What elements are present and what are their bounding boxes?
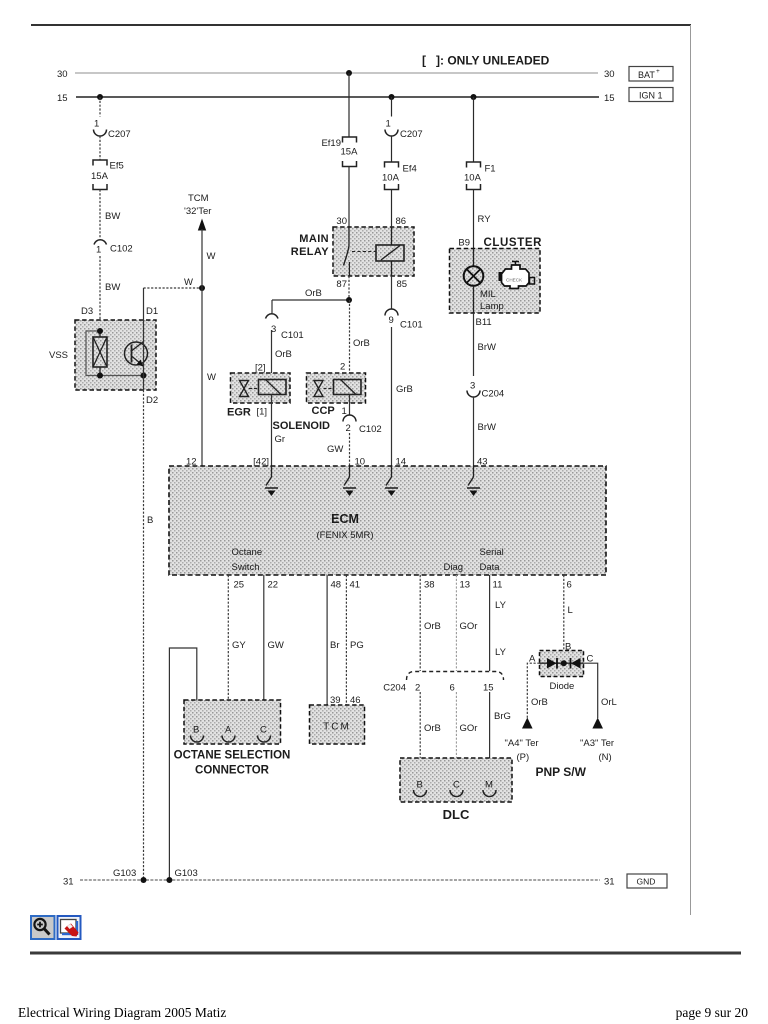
connector C102 pin 1: [94, 240, 133, 256]
label OCTANE SELECTION CONNECTOR: [174, 750, 291, 777]
wire C101 to ECM pin 14, GrB: [392, 327, 413, 466]
pin label 30: [336, 216, 347, 227]
node VSS sensor bottom: [97, 373, 103, 379]
svg-text:13: 13: [460, 580, 471, 591]
svg-text:GOr: GOr: [460, 723, 478, 734]
svg-text:10A: 10A: [464, 173, 482, 184]
relay coil: [376, 227, 404, 276]
svg-text:OrB: OrB: [305, 288, 322, 299]
svg-text:page 9 sur 20: page 9 sur 20: [676, 1005, 749, 1020]
wire C102 to VSS D3, BW: [100, 256, 120, 320]
wire ECM 41 to TCM 46, PG: [346, 575, 363, 706]
note: only unleaded: [422, 54, 550, 68]
fuse Ef19 15A: [321, 137, 358, 167]
node G103 B wire: [141, 877, 147, 883]
pin label 38: [424, 580, 435, 591]
svg-text:Br: Br: [330, 640, 340, 651]
connector C204 pin 3: [467, 381, 504, 400]
svg-text:31: 31: [63, 877, 74, 888]
svg-text:BW: BW: [105, 282, 120, 293]
svg-text:(N): (N): [599, 752, 612, 763]
TCM box: [310, 705, 365, 744]
svg-text:OCTANE SELECTION: OCTANE SELECTION: [174, 750, 291, 762]
svg-text:GY: GY: [232, 640, 246, 651]
wire ECM 25 to octane A, GY: [228, 575, 246, 720]
svg-text:1: 1: [386, 119, 391, 130]
svg-text:G103: G103: [113, 868, 136, 879]
octane connector box: [184, 700, 281, 744]
svg-text:[1]: [1]: [257, 407, 268, 418]
wire W down to ECM pin 12: [202, 288, 216, 466]
node on bus 30 at main relay column: [346, 70, 352, 76]
connector C101 pin 9: [385, 309, 423, 331]
node W junction: [199, 285, 205, 291]
svg-text:C101: C101: [400, 320, 423, 331]
wire OrB horizontal to EGR branch: [272, 288, 349, 300]
pin label [42]: [253, 457, 269, 468]
terminal box BAT+: [629, 67, 673, 82]
svg-text:OrB: OrB: [353, 338, 370, 349]
svg-text:RY: RY: [478, 214, 492, 225]
fuse Ef5 15A: [91, 160, 124, 190]
svg-text:+: +: [656, 68, 660, 75]
pin label [2]: [255, 363, 266, 374]
CCP coil: [334, 380, 362, 395]
svg-text:1: 1: [96, 245, 101, 256]
VSS internal loop wire: [86, 331, 144, 376]
node G103 octane wire: [166, 877, 172, 883]
label Diode: [550, 681, 575, 692]
wire C204-6 to DLC C, GOr: [456, 692, 477, 779]
svg-text:Electrical Wiring Diagram 2005: Electrical Wiring Diagram 2005 Matiz: [18, 1005, 226, 1020]
svg-text:B: B: [193, 725, 199, 736]
wire EGR to ECM [42], Gr: [272, 395, 286, 467]
bus 31 label left: [63, 877, 74, 888]
octane pin C: [258, 725, 271, 743]
svg-text:ECM: ECM: [331, 512, 359, 526]
svg-text:3: 3: [470, 381, 475, 392]
DLC pin C: [450, 780, 463, 797]
fuse F1 10A: [464, 162, 496, 190]
svg-text:10A: 10A: [382, 173, 400, 184]
footer rule: [30, 952, 741, 955]
svg-text:DLC: DLC: [443, 807, 470, 822]
octane pin B: [191, 725, 204, 743]
wire cluster to C204, BrW: [474, 313, 497, 376]
svg-text:BrG: BrG: [494, 711, 511, 722]
svg-text:86: 86: [396, 216, 407, 227]
ECM ground for pin 43: [467, 466, 480, 496]
svg-text:1: 1: [94, 119, 99, 130]
svg-text:30: 30: [336, 216, 347, 227]
ECM ground for pin 14: [385, 466, 398, 496]
wire Ef4 to relay pin 86: [391, 190, 393, 228]
svg-text:EGR: EGR: [227, 407, 251, 419]
svg-text:BrW: BrW: [478, 422, 497, 433]
reference arrow to TCM 32 terminal: [184, 193, 216, 288]
svg-text:OrB: OrB: [275, 349, 292, 360]
svg-text:[2]: [2]: [255, 363, 266, 374]
pin label D3: [81, 306, 93, 317]
solenoid CCP box: [307, 373, 366, 403]
svg-text:GOr: GOr: [460, 621, 478, 632]
footer page number: [676, 1005, 749, 1020]
svg-text:MIL: MIL: [480, 289, 496, 300]
relay box MAIN RELAY: [333, 227, 414, 276]
node bus15 / Ef5 column: [97, 94, 103, 100]
svg-text:Octane: Octane: [232, 547, 263, 558]
pin label C: [587, 654, 594, 665]
wire diode A to A4 terminal, OrB: [527, 663, 548, 718]
wire diode C to A3 terminal, OrL: [584, 663, 617, 718]
svg-text:(FENIX 5MR): (FENIX 5MR): [317, 530, 374, 541]
wire relay 85 to C101 pin 9: [391, 276, 393, 309]
svg-text:OrB: OrB: [531, 697, 548, 708]
svg-text:Ef5: Ef5: [110, 161, 124, 172]
svg-text:11: 11: [493, 580, 503, 591]
pin label 2 (CCP): [340, 362, 345, 373]
svg-text:B11: B11: [476, 317, 492, 328]
relay name MAIN RELAY: [291, 233, 330, 258]
svg-text:Data: Data: [480, 562, 501, 573]
svg-text:15: 15: [57, 93, 68, 104]
CCP valve symbol: [314, 381, 332, 397]
pin label 10: [355, 457, 366, 468]
wire bus 15: [76, 96, 599, 98]
svg-text:F1: F1: [485, 164, 496, 175]
svg-text:CLUSTER: CLUSTER: [484, 237, 543, 249]
label DLC: [443, 807, 470, 822]
svg-text:30: 30: [57, 69, 68, 80]
svg-text:C101: C101: [281, 330, 304, 341]
diode pair: [540, 658, 584, 669]
relay switch contact: [344, 227, 377, 276]
connector C101 pin 3: [266, 314, 304, 341]
svg-text:9: 9: [389, 315, 394, 326]
wire EGR branch down to C101: [271, 300, 273, 313]
svg-text:OrL: OrL: [601, 697, 617, 708]
wire ECM 11 to DLC M, LY: [490, 575, 507, 671]
wire Ef5 to C102, BW: [100, 190, 120, 238]
solenoid EGR box: [231, 373, 291, 403]
svg-text:85: 85: [397, 279, 408, 290]
svg-text:GW: GW: [327, 444, 343, 455]
svg-text:B: B: [417, 780, 423, 791]
svg-text:G103: G103: [175, 868, 198, 879]
svg-text:Serial: Serial: [480, 547, 504, 558]
VSS sensor element: [93, 331, 107, 376]
node OrB junction: [346, 297, 352, 303]
svg-text:15A: 15A: [341, 147, 359, 158]
terminal box IGN 1: [629, 88, 673, 102]
wire C204 to ECM pin 43, BrW: [474, 397, 497, 466]
wire F1 to cluster, RY: [474, 190, 492, 249]
svg-text:6: 6: [567, 580, 572, 591]
toolbar icon zoom: [31, 916, 55, 939]
svg-text:C207: C207: [108, 129, 131, 140]
ECM box: [169, 466, 606, 575]
svg-text:Diode: Diode: [550, 681, 575, 692]
wire ECM 22 to octane C, GW: [264, 575, 284, 720]
DLC box: [400, 758, 512, 802]
pin label 12: [186, 457, 197, 468]
svg-text:TCM: TCM: [188, 193, 209, 204]
svg-text:15: 15: [483, 683, 494, 694]
svg-text:GW: GW: [268, 640, 284, 651]
svg-text:MAIN: MAIN: [299, 233, 329, 245]
svg-text:38: 38: [424, 580, 435, 591]
svg-text:LY: LY: [495, 647, 507, 658]
svg-text:2: 2: [340, 362, 345, 373]
wire C207 to fuse Ef5: [99, 136, 101, 160]
pin label 41: [350, 580, 361, 591]
svg-text:D1: D1: [146, 306, 158, 317]
wire Ef19 to relay pin 30: [348, 167, 350, 228]
cluster box: [450, 249, 541, 314]
wire bus 31: [80, 879, 600, 881]
fuse Ef4 10A: [382, 162, 417, 190]
wire bus 30: [75, 72, 598, 74]
pin label 25: [234, 580, 245, 591]
wire C204-2 to DLC B, OrB: [420, 692, 441, 779]
svg-text:IGN 1: IGN 1: [639, 91, 663, 101]
svg-text:6: 6: [450, 683, 455, 694]
svg-text:CONNECTOR: CONNECTOR: [195, 765, 270, 777]
DLC pin B: [414, 780, 427, 797]
svg-text:OrB: OrB: [424, 621, 441, 632]
svg-text:GND: GND: [637, 877, 656, 887]
pin label 11: [493, 580, 503, 591]
bus 30 label right: [604, 69, 615, 80]
svg-text:22: 22: [268, 580, 279, 591]
label CCP: [312, 405, 335, 417]
pin label B9: [458, 238, 470, 249]
wire C204-15 to DLC M, BrG: [490, 692, 511, 779]
node VSS sensor top: [97, 328, 103, 334]
svg-text:'32'Ter: '32'Ter: [184, 206, 211, 217]
wire bus30 to fuse Ef19: [348, 73, 350, 137]
svg-text:25: 25: [234, 580, 245, 591]
svg-text:SOLENOID: SOLENOID: [273, 420, 331, 432]
check engine icon: [499, 262, 535, 289]
pin label B11: [476, 317, 492, 328]
pin label 87: [336, 279, 347, 290]
page right border: [690, 25, 692, 915]
svg-text:PG: PG: [350, 640, 364, 651]
svg-text:Lamp: Lamp: [480, 301, 504, 312]
pin label 13: [460, 580, 471, 591]
EGR valve symbol: [240, 381, 258, 397]
svg-text:C204: C204: [482, 389, 505, 400]
pin label [1]: [257, 407, 268, 418]
svg-text:C207: C207: [400, 129, 423, 140]
wire ECM 38 to DLC B, OrB: [420, 575, 441, 671]
svg-text:OrB: OrB: [424, 723, 441, 734]
svg-text:Gr: Gr: [275, 434, 286, 445]
wire bus15 to C207 (Ef4 column): [391, 97, 393, 117]
pin label D1: [146, 306, 158, 317]
svg-text:D2: D2: [146, 395, 158, 406]
label G103 right: [175, 868, 198, 879]
svg-text:A: A: [225, 725, 232, 736]
pin label 48: [331, 580, 342, 591]
pin label 43: [477, 457, 488, 468]
terminal arrow A3: [580, 718, 614, 764]
wire relay 87 down to OrB node: [348, 276, 350, 300]
wire bus15 to fuse F1: [473, 97, 475, 162]
svg-text:2: 2: [415, 683, 420, 694]
svg-text:C102: C102: [110, 244, 133, 255]
svg-text:41: 41: [350, 580, 361, 591]
wire D1 vertical through VSS: [143, 288, 145, 390]
svg-text:31: 31: [604, 877, 615, 888]
bus 15 label right: [604, 93, 615, 104]
svg-text:BW: BW: [105, 211, 120, 222]
svg-text:C: C: [453, 780, 460, 791]
svg-text:(P): (P): [517, 752, 530, 763]
component box VSS: [49, 320, 156, 390]
svg-text:B: B: [147, 515, 153, 526]
svg-text:M: M: [485, 780, 493, 791]
svg-text:30: 30: [604, 69, 615, 80]
svg-text:Ef4: Ef4: [403, 164, 417, 175]
pin label 22: [268, 580, 279, 591]
svg-text:2: 2: [346, 423, 351, 434]
wire ECM 48 to TCM 39, Br: [327, 575, 340, 706]
svg-text:L: L: [568, 605, 573, 616]
diode box: [540, 651, 584, 677]
ECM ground for pin 42: [265, 466, 278, 496]
pin label 1 (CCP): [342, 406, 347, 417]
svg-text:TCM: TCM: [323, 722, 351, 733]
toolbar icon print: [58, 916, 81, 939]
svg-text:W: W: [207, 251, 216, 262]
wire G103 up to octane B: [169, 648, 196, 880]
svg-text:PNP S/W: PNP S/W: [536, 765, 587, 779]
connector C207 pin 1 (Ef4 column): [385, 119, 423, 141]
svg-text:RELAY: RELAY: [291, 246, 330, 258]
svg-text:C102: C102: [359, 424, 382, 435]
wire D2 to G103, B: [144, 390, 154, 880]
wire ECM 6 to diode B, L: [564, 575, 573, 656]
VSS transistor Q: [125, 342, 148, 367]
label PNP S/W: [536, 765, 587, 779]
connector C207 pin 1: [94, 119, 131, 141]
svg-text:Switch: Switch: [232, 562, 260, 573]
octane pin A: [222, 725, 235, 743]
label CLUSTER: [484, 237, 543, 249]
bus 31 label right: [604, 877, 615, 888]
svg-text:W: W: [207, 372, 216, 383]
svg-text:48: 48: [331, 580, 342, 591]
node VSS emitter rail: [141, 373, 147, 379]
pin label 6: [567, 580, 572, 591]
wire W horizontal from D1 to TCM column: [144, 277, 203, 288]
bus 30 label left: [57, 69, 68, 80]
terminal arrow A4: [505, 718, 539, 764]
svg-text:BAT: BAT: [638, 70, 655, 80]
pin label D2: [146, 395, 158, 406]
wire C101 to EGR, OrB: [272, 330, 292, 373]
bus 15 label left: [57, 93, 68, 104]
svg-text:"A3" Ter: "A3" Ter: [580, 738, 614, 749]
svg-text:[ ]: ONLY UNLEADED: [ ]: ONLY UNLEADED: [422, 54, 550, 68]
node bus15 / F1 column: [471, 94, 477, 100]
svg-text:Diag: Diag: [444, 562, 464, 573]
DLC pin M: [483, 780, 496, 797]
svg-text:B9: B9: [458, 238, 470, 249]
page top rule: [31, 24, 691, 26]
wire C207 to fuse Ef4: [391, 136, 393, 162]
ECM ground for pin 10: [343, 466, 356, 496]
svg-text:Ef19: Ef19: [321, 138, 341, 149]
svg-text:15A: 15A: [91, 171, 109, 182]
label G103 left: [113, 868, 136, 879]
svg-text:CHECK: CHECK: [506, 278, 523, 283]
svg-text:D3: D3: [81, 306, 93, 317]
terminal box GND: [627, 874, 667, 888]
pin label 86: [396, 216, 407, 227]
EGR coil: [259, 380, 287, 395]
svg-text:C: C: [260, 725, 267, 736]
wire bus15 to C207 pin1: [99, 97, 101, 117]
MIL lamp: [464, 249, 504, 314]
pin label 14: [396, 457, 407, 468]
svg-text:C204: C204: [383, 683, 406, 694]
svg-text:LY: LY: [495, 600, 507, 611]
wire OrB node down to CCP pin 2: [350, 300, 370, 373]
svg-text:15: 15: [604, 93, 615, 104]
svg-text:BrW: BrW: [478, 342, 497, 353]
svg-text:GrB: GrB: [396, 384, 413, 395]
wire CCP to C102: [349, 395, 351, 416]
label SOLENOID: [273, 420, 331, 432]
pin label 85: [397, 279, 408, 290]
wire C102 to ECM pin 10, GW: [327, 433, 350, 466]
connector C102 pin 2: [343, 415, 382, 435]
svg-text:W: W: [184, 277, 193, 288]
svg-text:VSS: VSS: [49, 350, 68, 361]
svg-text:"A4" Ter: "A4" Ter: [505, 738, 539, 749]
pin label A: [529, 654, 536, 665]
label EGR: [227, 407, 251, 419]
footer title: [18, 1005, 226, 1020]
svg-text:87: 87: [336, 279, 347, 290]
node bus15 / Ef4 column: [389, 94, 395, 100]
svg-text:CCP: CCP: [312, 405, 335, 417]
wire ECM 13 to DLC C, GOr: [456, 575, 477, 671]
connector C204 multi: [383, 672, 503, 694]
